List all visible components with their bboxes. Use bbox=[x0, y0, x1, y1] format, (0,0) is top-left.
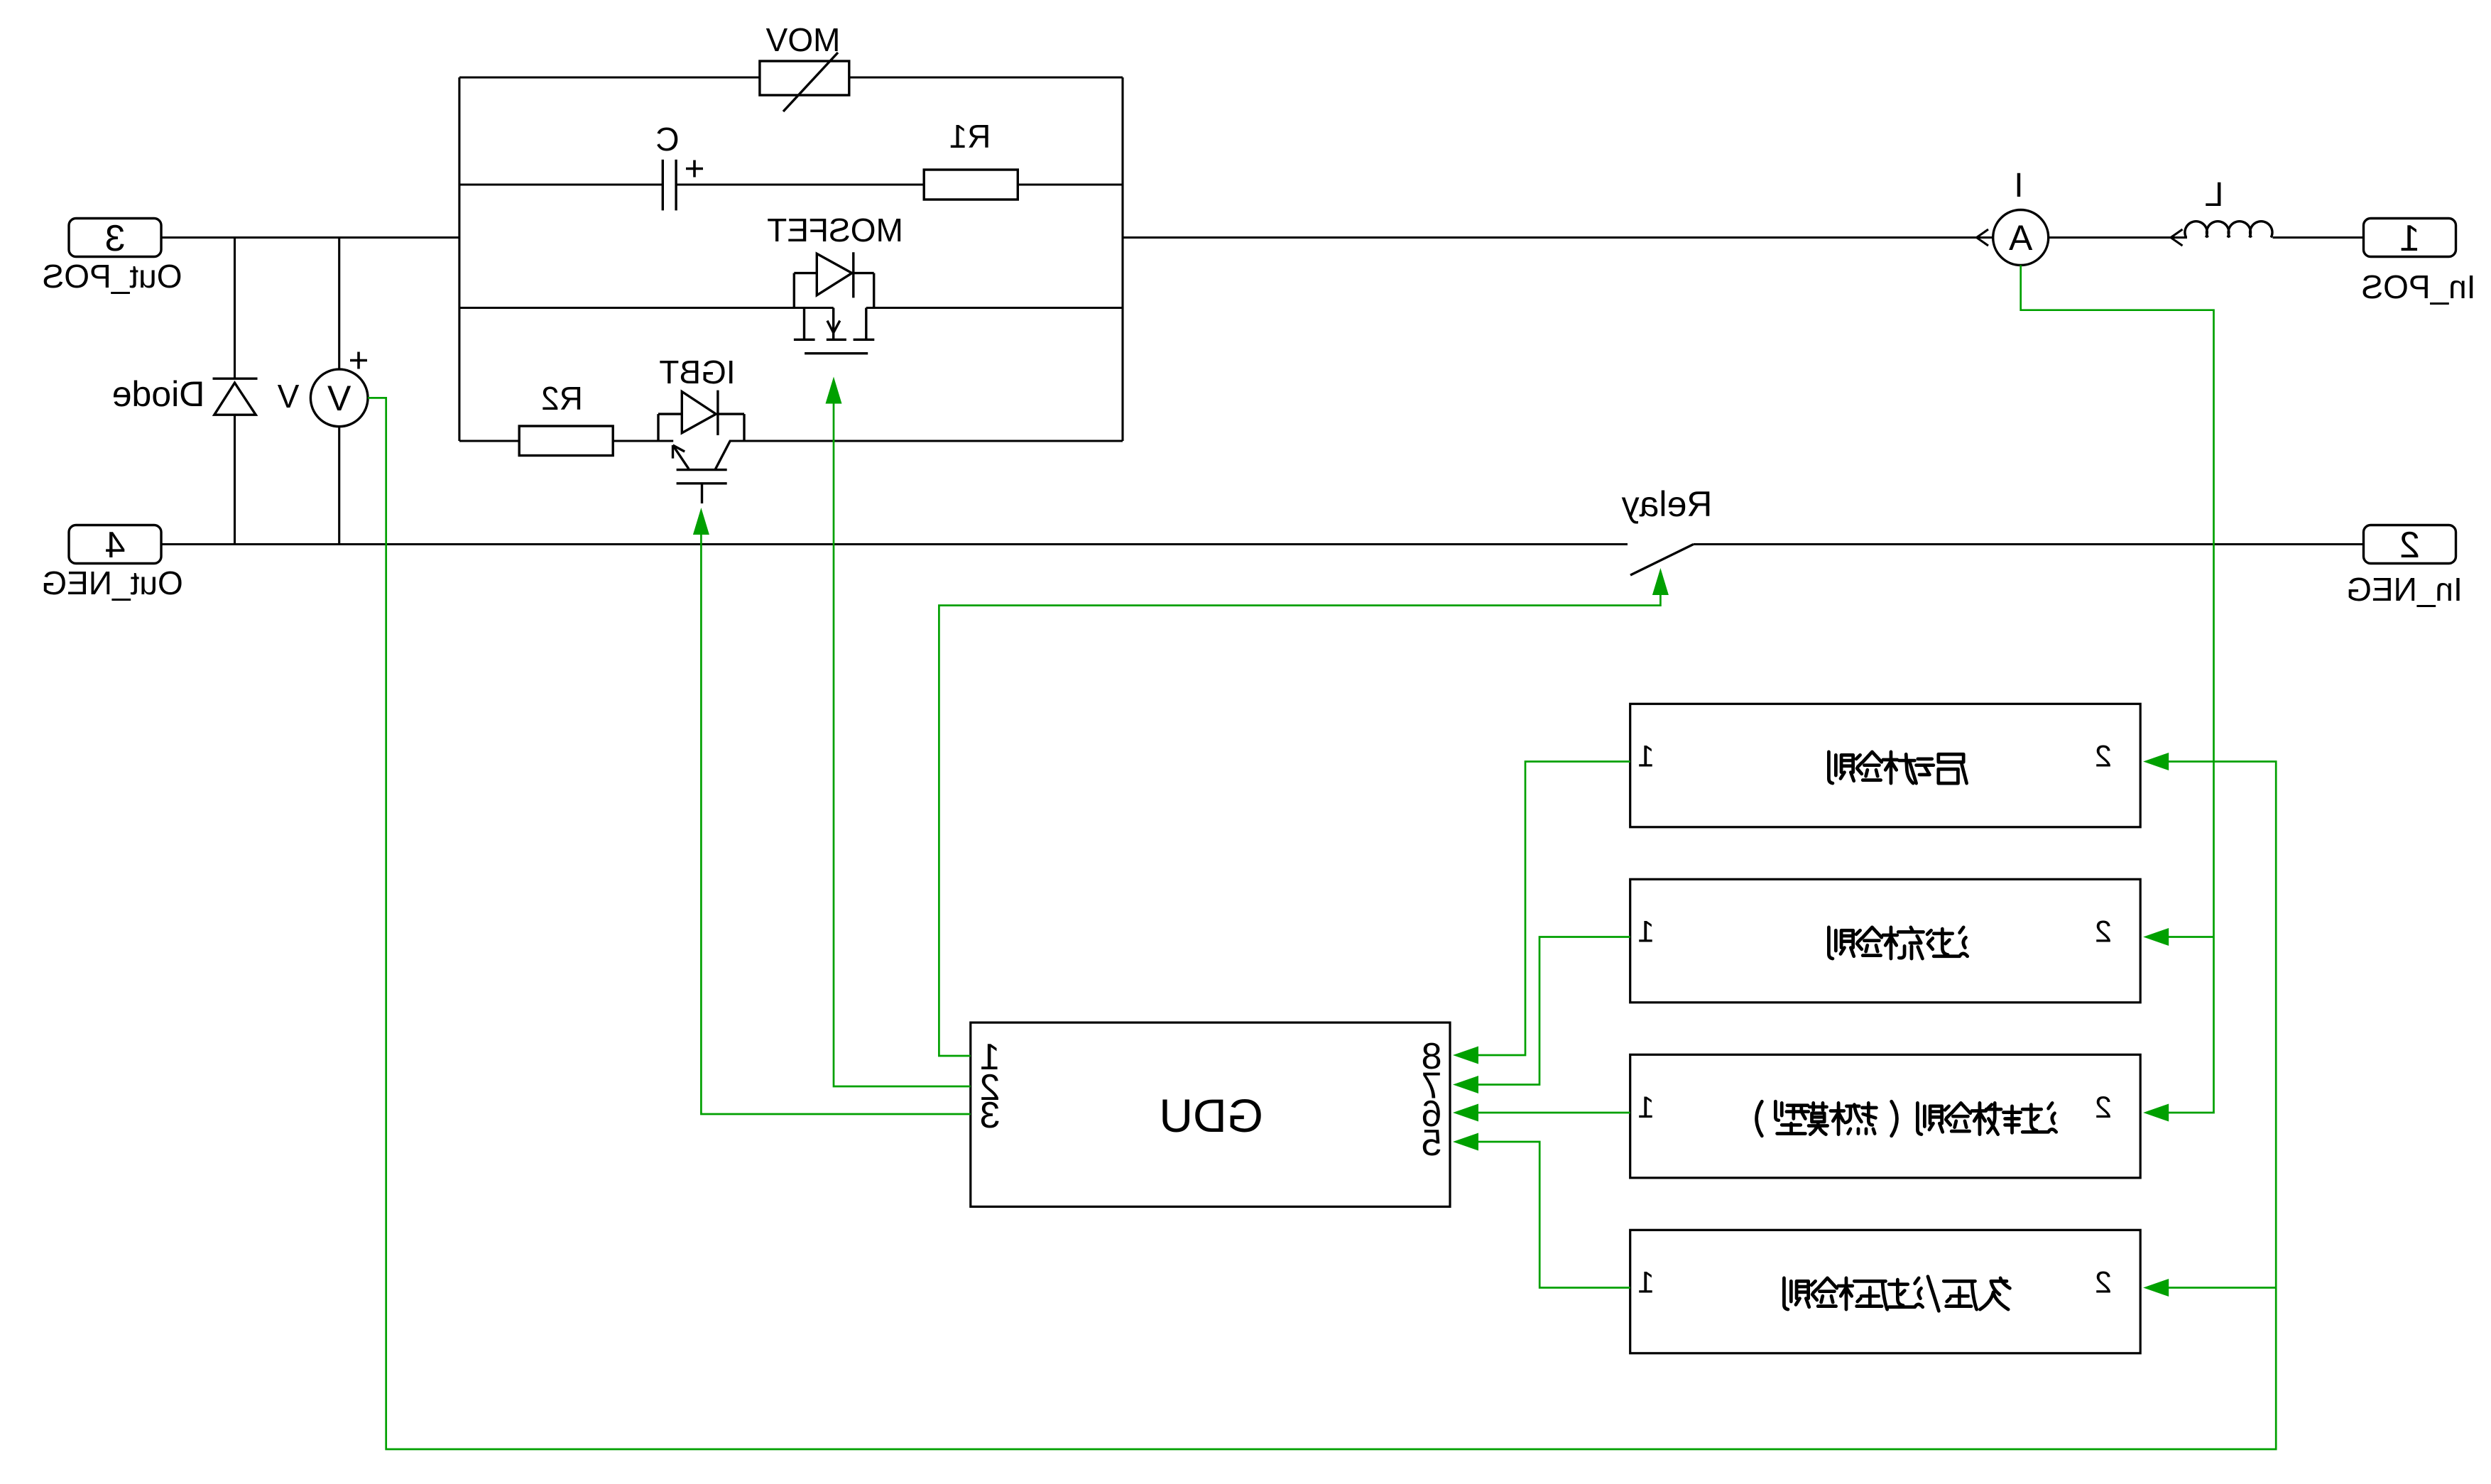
box guoliu jiance bbox=[1630, 879, 2141, 1003]
svg-text:Out_NEG: Out_NEG bbox=[41, 564, 182, 601]
snubber block right edge wire bbox=[1121, 77, 1123, 441]
wire guoliu box to GDU pin 7 bbox=[1478, 937, 1630, 1085]
svg-text:V: V bbox=[277, 378, 299, 415]
wire ammeter to inductor bbox=[2049, 236, 2187, 239]
svg-text:3: 3 bbox=[105, 218, 126, 259]
wire qidong box to GDU pin 8 bbox=[1478, 762, 1630, 1056]
svg-text:IGBT: IGBT bbox=[659, 354, 735, 391]
transistor MOSFET bbox=[793, 273, 795, 308]
wire R2 to IGBT bbox=[613, 440, 673, 442]
resistor R1 bbox=[924, 170, 1018, 200]
svg-text:1: 1 bbox=[1637, 740, 1655, 774]
svg-text:MOV: MOV bbox=[765, 21, 840, 58]
wire arrow into guozai box pin 2 bbox=[2143, 1104, 2169, 1122]
wire voltmeter bottom bbox=[338, 427, 340, 545]
varistor MOV bbox=[760, 61, 849, 95]
svg-text:1: 1 bbox=[1637, 915, 1655, 949]
block GDU bbox=[971, 1022, 1450, 1206]
wire voltmeter sense branch to qianya box bbox=[2168, 1287, 2276, 1289]
wire C to R1 bbox=[676, 183, 924, 185]
inductor arrow bbox=[2171, 229, 2183, 238]
svg-text:Relay: Relay bbox=[1622, 484, 1713, 524]
svg-text:5: 5 bbox=[1422, 1123, 1442, 1164]
wire voltmeter top bbox=[338, 238, 340, 370]
wire IGBT rail left bbox=[459, 440, 519, 442]
wire arrow into GDU pin 8 bbox=[1453, 1047, 1478, 1064]
svg-text:In_POS: In_POS bbox=[2361, 268, 2475, 305]
wire arrow to IGBT gate bbox=[693, 508, 709, 535]
wire relay to In_NEG port bbox=[1694, 543, 2364, 545]
svg-text:R1: R1 bbox=[949, 118, 991, 155]
svg-text:2: 2 bbox=[2095, 740, 2112, 774]
wire arrow into guoliu box pin 2 bbox=[2143, 928, 2169, 946]
wire arrow to MOSFET gate bbox=[826, 377, 842, 404]
svg-text:I: I bbox=[2014, 167, 2023, 204]
wire MOSFET rail left bbox=[459, 307, 834, 309]
svg-text:2: 2 bbox=[2095, 1091, 2112, 1125]
wire qianya box to GDU pin 5 bbox=[1478, 1142, 1630, 1288]
wire diode top bbox=[234, 238, 236, 379]
wire inductor to In_POS port bbox=[2273, 236, 2364, 239]
label guoliu jiance (overcurrent detection) bbox=[1828, 927, 1967, 959]
capacitor C bbox=[662, 160, 664, 211]
label qianya/guoya jiance (under/over-voltage detection) bbox=[1784, 1277, 2010, 1311]
port 2 In_NEG bbox=[2364, 525, 2456, 564]
label guozai jiance remoxing (overload detection thermal model) bbox=[1757, 1101, 2056, 1136]
wire ammeter sense branch to guoliu box bbox=[2168, 936, 2213, 938]
ammeter arrow bbox=[1977, 229, 1989, 238]
wire arrow into qianya box pin 2 bbox=[2143, 1279, 2169, 1297]
svg-text:V: V bbox=[327, 378, 351, 418]
box qianya guoya jiance bbox=[1630, 1230, 2141, 1353]
inductor L bbox=[2185, 222, 2272, 238]
svg-text:2: 2 bbox=[2095, 915, 2112, 949]
wire C rail left bbox=[459, 183, 663, 185]
wire ammeter sense bbox=[2021, 266, 2214, 1113]
ammeter A bbox=[1993, 210, 2049, 266]
svg-text:GDU: GDU bbox=[1159, 1089, 1263, 1142]
box qidong jiance bbox=[1630, 704, 2141, 827]
svg-text:A: A bbox=[2008, 218, 2032, 258]
port 1 In_POS bbox=[2364, 219, 2456, 257]
wire arrow into qidong box pin 2 bbox=[2143, 753, 2169, 770]
svg-text:4: 4 bbox=[105, 525, 126, 566]
wire guozai box to GDU pin 6 bbox=[1478, 1112, 1630, 1114]
label qidong jiance (start detection) bbox=[1828, 752, 1966, 783]
wire MOSFET rail right bbox=[866, 307, 1123, 309]
transistor IGBT bbox=[657, 414, 659, 441]
resistor R2 bbox=[519, 426, 613, 456]
wire GDU pin 2 to MOSFET gate bbox=[834, 400, 971, 1086]
svg-text:Out_POS: Out_POS bbox=[43, 258, 182, 295]
wire MOV rail right bbox=[849, 76, 1123, 78]
wire GDU pin 3 to IGBT gate bbox=[701, 534, 970, 1114]
port 4 Out_NEG bbox=[69, 525, 161, 564]
svg-text:Diode: Diode bbox=[112, 374, 205, 414]
svg-text:R2: R2 bbox=[541, 380, 583, 417]
diode Diode bbox=[213, 378, 258, 380]
box guozai jiance bbox=[1630, 1054, 2141, 1178]
svg-text:2: 2 bbox=[2399, 525, 2420, 566]
wire diode bottom bbox=[234, 415, 236, 544]
svg-text:1: 1 bbox=[2399, 218, 2420, 259]
svg-text:3: 3 bbox=[980, 1095, 1001, 1136]
svg-text:1: 1 bbox=[1637, 1091, 1655, 1125]
wire arrow into GDU pin 5 bbox=[1453, 1133, 1478, 1151]
svg-text:C: C bbox=[655, 121, 679, 158]
wire Out_POS to snubber block bbox=[161, 236, 459, 239]
wire MOV rail left bbox=[459, 76, 760, 78]
wire arrow to relay coil bbox=[1652, 568, 1669, 595]
wire R1 rail right bbox=[1018, 183, 1123, 185]
wire arrow into GDU pin 7 bbox=[1453, 1076, 1478, 1093]
svg-text:MOSFET: MOSFET bbox=[767, 212, 903, 249]
wire GDU pin 1 to relay bbox=[939, 594, 1660, 1056]
svg-text:L: L bbox=[2205, 176, 2224, 214]
wire Out_NEG to relay bbox=[161, 543, 1628, 545]
relay switch blade bbox=[1630, 545, 1694, 576]
wire IGBT rail right bbox=[729, 440, 1123, 442]
svg-text:1: 1 bbox=[1637, 1266, 1655, 1300]
svg-text:2: 2 bbox=[2095, 1266, 2112, 1300]
voltmeter plus mark bbox=[350, 359, 367, 362]
snubber block left edge wire bbox=[458, 77, 460, 441]
port 3 Out_POS bbox=[69, 219, 161, 257]
capacitor C plus mark bbox=[686, 168, 703, 170]
voltmeter V bbox=[310, 369, 368, 427]
svg-text:In_NEG: In_NEG bbox=[2346, 571, 2463, 608]
wire arrow into GDU pin 6 bbox=[1453, 1104, 1478, 1122]
wire voltmeter sense bbox=[368, 398, 2276, 1449]
wire snubber to ammeter bbox=[1123, 236, 1993, 239]
